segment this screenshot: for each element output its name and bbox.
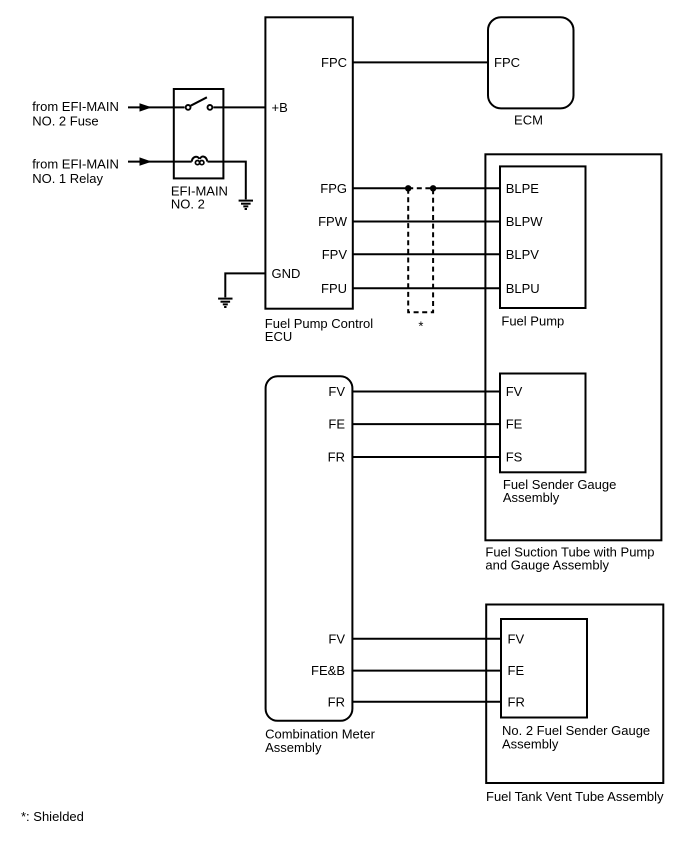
svg-text:and Gauge Assembly: and Gauge Assembly <box>485 558 609 573</box>
svg-text:BLPE: BLPE <box>506 181 540 196</box>
svg-text:BLPW: BLPW <box>506 214 544 229</box>
svg-text:FS: FS <box>506 450 523 465</box>
svg-text:Assembly: Assembly <box>265 740 322 755</box>
svg-text:BLPU: BLPU <box>506 281 540 296</box>
svg-text:NO. 2 Fuse: NO. 2 Fuse <box>32 114 98 129</box>
svg-text:FE: FE <box>506 417 523 432</box>
svg-text:FPW: FPW <box>318 214 348 229</box>
svg-text:FV: FV <box>508 631 525 646</box>
svg-text:NO. 1 Relay: NO. 1 Relay <box>32 171 103 186</box>
svg-text:BLPV: BLPV <box>506 247 540 262</box>
svg-text:GND: GND <box>272 266 301 281</box>
svg-text:FR: FR <box>328 450 345 465</box>
svg-text:*: * <box>418 319 423 334</box>
svg-text:from EFI-MAIN: from EFI-MAIN <box>32 99 119 114</box>
svg-text:Assembly: Assembly <box>502 736 559 751</box>
svg-text:FR: FR <box>508 694 525 709</box>
svg-text:FPG: FPG <box>320 181 347 196</box>
svg-text:FPU: FPU <box>321 281 347 296</box>
svg-text:FE&B: FE&B <box>311 663 345 678</box>
svg-text:Fuel Tank Vent Tube Assembly: Fuel Tank Vent Tube Assembly <box>486 789 664 804</box>
svg-text:Fuel Pump: Fuel Pump <box>501 313 564 328</box>
svg-text:Assembly: Assembly <box>503 490 560 505</box>
svg-text:+B: +B <box>272 100 288 115</box>
svg-text:from EFI-MAIN: from EFI-MAIN <box>32 157 119 172</box>
svg-text:FV: FV <box>328 631 345 646</box>
svg-text:FR: FR <box>328 694 345 709</box>
svg-text:FE: FE <box>508 663 525 678</box>
svg-text:FV: FV <box>328 384 345 399</box>
svg-text:FV: FV <box>506 384 523 399</box>
svg-text:FE: FE <box>328 417 345 432</box>
svg-text:FPV: FPV <box>322 247 348 262</box>
svg-text:*: Shielded: *: Shielded <box>21 809 84 824</box>
svg-text:FPC: FPC <box>321 55 347 70</box>
svg-text:ECM: ECM <box>514 112 543 127</box>
svg-text:FPC: FPC <box>494 55 520 70</box>
svg-text:ECU: ECU <box>265 329 292 344</box>
svg-text:NO. 2: NO. 2 <box>171 197 205 212</box>
